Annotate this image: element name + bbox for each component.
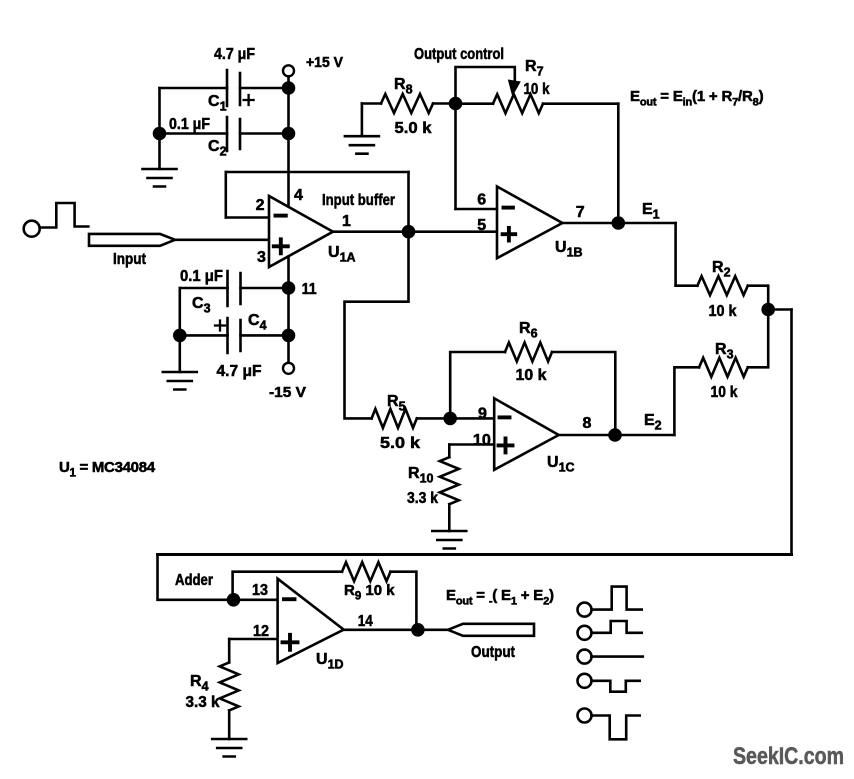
wire R7 left lead [456, 102, 494, 105]
svg-text:Output: Output [471, 644, 516, 661]
junction C4 left [173, 329, 187, 343]
svg-text:R9 10 k: R9 10 k [344, 582, 395, 603]
svg-text:Eout = Ein(1 + R7/R8): Eout = Ein(1 + R7/R8) [630, 88, 764, 109]
wire +15V rail down to U1A pin4 [287, 88, 290, 207]
wire pot wiper bracket [456, 67, 515, 104]
svg-text:R7: R7 [525, 58, 544, 79]
waveform terminal 3 [578, 650, 592, 664]
wire U1C pin10 stub [449, 443, 494, 446]
svg-text:14: 14 [358, 613, 373, 630]
wire left vertical C3-C4 to ground [179, 288, 182, 372]
U1B plus [503, 228, 516, 241]
svg-text:U1A: U1A [328, 244, 356, 265]
svg-text:4.7 μF: 4.7 μF [217, 363, 262, 380]
polarity + (C4) [215, 321, 225, 331]
svg-text:Input: Input [113, 251, 147, 268]
wire U1C output [559, 434, 615, 437]
ground below C3/C4 [163, 372, 197, 390]
terminal -15V [283, 363, 294, 374]
waveform terminal 5 [578, 709, 592, 723]
wire R4 top lead [228, 639, 231, 662]
wire U1A feedback left [225, 172, 228, 218]
junction C4 right [282, 329, 296, 343]
U1D minus [284, 597, 295, 601]
capacitor C4 [228, 318, 241, 353]
svg-text:1: 1 [342, 213, 351, 230]
svg-text:12: 12 [253, 623, 269, 640]
junction U1A output [402, 225, 416, 239]
ground below R4 [212, 739, 246, 757]
waveform terminal 1 [578, 603, 592, 617]
svg-text:4.7 μF: 4.7 μF [214, 46, 255, 63]
input terminal [24, 221, 40, 237]
wire C4 left [180, 334, 228, 337]
wire U1B output [562, 222, 675, 225]
junction pot node [449, 97, 463, 111]
junction +15V rail C2 [282, 127, 296, 141]
svg-text:C1: C1 [208, 93, 227, 114]
ground below R10 [432, 531, 466, 549]
wire R6 left vertical [450, 352, 505, 418]
svg-text:+15 V: +15 V [306, 54, 343, 71]
junction C2 left [153, 127, 167, 141]
wire C2 left [160, 132, 228, 135]
wire right bus down to adder [790, 310, 793, 555]
wire adder bus [158, 553, 792, 556]
wire E1 down to R2 [674, 223, 677, 286]
wire R4 bottom lead [228, 710, 231, 739]
wire C2 to rail [240, 132, 289, 135]
resistor R10 [440, 457, 459, 504]
terminal +15V [283, 65, 294, 76]
wire C4 to rail [241, 334, 289, 337]
U1A minus [276, 214, 286, 218]
junction U1D output [411, 623, 425, 637]
wire R8 left lead [362, 102, 381, 105]
wire U1A output to U1B pin5 [333, 230, 497, 233]
svg-text:C4: C4 [248, 312, 267, 333]
waveform 3 flat line [592, 655, 643, 658]
junction +15V rail top [282, 81, 296, 95]
wire R8 right lead [433, 102, 456, 105]
junction R5/pin9 node [443, 412, 457, 426]
wire R2 right lead [748, 286, 768, 310]
wire U1C pin9 stub [450, 417, 494, 420]
wire input to U1A pin3 [175, 239, 269, 242]
svg-text:0.1 μF: 0.1 μF [169, 116, 210, 133]
U1D plus [283, 635, 298, 650]
pot wiper arrow [508, 80, 521, 97]
wire R9 left vertical [233, 572, 342, 600]
svg-text:8: 8 [583, 415, 592, 432]
wire U1B pin6 stub [456, 208, 498, 211]
wire C1 top rail [160, 87, 228, 90]
wire R3 right lead [748, 310, 768, 368]
wire -15V rail from U1A [287, 257, 290, 363]
svg-text:0.1 μF: 0.1 μF [180, 268, 223, 285]
polarity + (C1) [244, 95, 254, 105]
wire U1D pin13 stub [234, 598, 278, 601]
wire left vertical C1-C2 to ground [158, 88, 161, 169]
svg-text:U1B: U1B [555, 239, 583, 260]
wire R7 right lead [543, 102, 618, 105]
resistor R3 [699, 358, 748, 377]
ground below C1/C2 [143, 169, 177, 187]
capacitor C2 [227, 117, 240, 151]
svg-text:9: 9 [478, 406, 487, 423]
waveform 4 short negative pulse [592, 681, 640, 692]
waveform terminal 2 [578, 626, 592, 640]
junction U1C output [608, 428, 622, 442]
svg-text:11: 11 [302, 281, 317, 298]
waveform 2 short positive pulse [592, 621, 642, 633]
waveform terminal 4 [578, 674, 592, 688]
resistor R8 [381, 94, 433, 113]
svg-text:R2: R2 [712, 259, 731, 280]
op-amp U1D [278, 579, 344, 663]
svg-text:13: 13 [252, 582, 268, 599]
svg-text:C3: C3 [192, 295, 211, 316]
svg-text:Adder: Adder [175, 572, 213, 589]
output pointer [448, 624, 534, 636]
wire U1B pin6 vertical [454, 104, 457, 210]
wire C3 left [180, 287, 228, 290]
svg-text:R6: R6 [519, 320, 538, 341]
wire E2 to R3 [615, 434, 674, 437]
svg-text:E1: E1 [642, 201, 660, 222]
svg-text:SeekIC.com: SeekIC.com [733, 743, 844, 770]
op-amp U1A [269, 196, 333, 267]
wire adder left drop [158, 555, 234, 600]
svg-text:3.3 k: 3.3 k [186, 694, 220, 711]
svg-text:R10: R10 [408, 465, 434, 486]
capacitor C1 [227, 70, 240, 106]
wire +15V stem [287, 76, 290, 88]
wire R6 right lead [552, 352, 615, 435]
resistor R4 [220, 662, 239, 710]
ground below R8 [345, 136, 379, 154]
wire drop from U1A output [345, 232, 409, 419]
wire U1D output [344, 628, 448, 631]
svg-text:U1D: U1D [316, 651, 344, 672]
svg-text:5.0 k: 5.0 k [380, 435, 420, 452]
wire R9 right lead [391, 572, 417, 630]
svg-text:3: 3 [257, 249, 266, 266]
wire U1A pin2 stub [226, 216, 269, 219]
svg-text:5.0 k: 5.0 k [395, 120, 432, 137]
wire C3 to node 11 [241, 287, 289, 290]
svg-text:-15 V: -15 V [269, 384, 306, 401]
resistor R6 [505, 343, 552, 362]
wire R2 left lead [676, 284, 698, 287]
svg-text:2: 2 [256, 197, 265, 214]
wire node to right bus [768, 308, 791, 311]
U1B minus [504, 206, 513, 210]
svg-text:10 k: 10 k [709, 303, 737, 320]
resistor R7 [493, 94, 543, 113]
resistor R2 [697, 276, 747, 295]
wire R3 left lead [674, 367, 699, 435]
svg-text:Eout = -( E1 + E2): Eout = -( E1 + E2) [446, 587, 554, 608]
svg-text:10 k: 10 k [711, 384, 738, 401]
svg-text:10 k: 10 k [524, 81, 550, 98]
svg-text:C2: C2 [208, 138, 227, 159]
svg-text:R4: R4 [190, 673, 209, 694]
wire C1 to +15V node [240, 87, 289, 90]
junction pin13 node [227, 593, 241, 607]
svg-text:4: 4 [294, 187, 303, 204]
junction node 11 [282, 281, 296, 295]
wire U1A feedback top [226, 171, 409, 174]
wire U1D pin12 stub [229, 638, 277, 641]
wire R10 bottom lead [448, 504, 451, 531]
waveform 5 tall negative pulse [592, 716, 640, 740]
wire R10 top lead [448, 445, 451, 458]
svg-text:Output control: Output control [414, 46, 504, 63]
resistor R9 [342, 562, 391, 581]
svg-text:6: 6 [477, 192, 486, 209]
waveform 1 tall positive pulse [592, 587, 642, 610]
svg-text:Input buffer: Input buffer [322, 192, 395, 209]
U1A plus [274, 239, 288, 253]
capacitor C3 [228, 271, 241, 306]
svg-text:7: 7 [576, 204, 585, 221]
svg-text:5: 5 [477, 217, 486, 234]
resistor R5 [372, 409, 417, 428]
svg-text:10 k: 10 k [516, 367, 547, 384]
junction E1 node [612, 216, 626, 230]
U1C plus [499, 438, 513, 452]
U1C minus [500, 415, 510, 419]
wire R8 ground lead [361, 104, 364, 137]
svg-text:10: 10 [473, 432, 491, 449]
wire R5 right lead [417, 417, 450, 420]
svg-text:U1C: U1C [547, 454, 575, 475]
wire U1A feedback right [407, 172, 410, 232]
input probe arrow [89, 234, 175, 246]
junction R2/R3 node [761, 303, 775, 317]
svg-text:U1 = MC34084: U1 = MC34084 [59, 459, 156, 480]
input pulse waveform [40, 203, 89, 228]
wire R7 down to E1 node [617, 104, 620, 223]
op-amp U1B [497, 187, 562, 259]
svg-text:E2: E2 [644, 412, 662, 433]
svg-text:3.3 k: 3.3 k [407, 490, 438, 507]
op-amp U1C [494, 398, 559, 470]
